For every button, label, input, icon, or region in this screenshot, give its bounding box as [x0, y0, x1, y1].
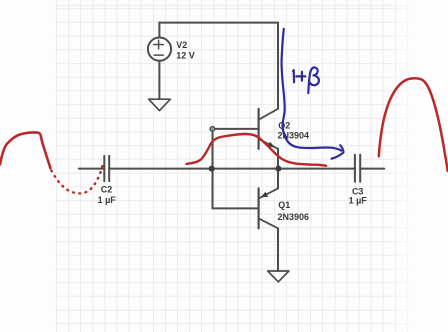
junction node on output wire at emitters	[275, 166, 281, 172]
svg-text:2N3906: 2N3906	[278, 212, 310, 222]
label 1 uF for C2	[98, 195, 117, 205]
label 2N3904	[278, 130, 310, 140]
wire input stub left of C2	[79, 168, 105, 170]
blue annotation curve with arrow	[282, 29, 344, 159]
wire V2 top lead	[158, 23, 160, 37]
capacitor C2	[104, 156, 109, 181]
ground under Q1	[268, 271, 289, 282]
svg-text:C2: C2	[101, 185, 113, 195]
capacitor C3	[355, 155, 360, 182]
red base waveform hump	[187, 134, 327, 166]
wire V2 bottom lead to ground	[158, 61, 160, 99]
svg-text:1 µF: 1 µF	[98, 195, 117, 205]
label Q1	[278, 200, 290, 210]
red input waveform solid hump	[0, 132, 50, 168]
wire top rail from V2 to Q2 collector	[159, 22, 278, 24]
red output waveform big hump	[379, 78, 448, 171]
transistor Q2 NPN symbol	[259, 109, 278, 149]
voltage source V2	[148, 38, 171, 61]
svg-text:1 µF: 1 µF	[349, 196, 368, 206]
wire Q1 emitter lead	[277, 169, 279, 189]
svg-text:12 V: 12 V	[176, 51, 195, 61]
junction node on input wire at base bus	[209, 166, 215, 172]
wire Q2 collector lead	[277, 23, 279, 109]
label 2N3906	[278, 212, 310, 222]
wire Q1 base lead	[213, 207, 259, 209]
label C3	[352, 186, 364, 196]
wire output stub right of C3	[360, 168, 384, 170]
blue handwritten label 1+beta	[293, 67, 319, 93]
label C2	[101, 185, 113, 195]
wire Q1 collector lead to ground	[277, 228, 279, 271]
transistor Q1 PNP symbol	[259, 188, 278, 228]
red input waveform dashed valley	[51, 162, 103, 194]
label 12 V	[176, 51, 195, 61]
label V2	[176, 40, 187, 50]
svg-text:V2: V2	[176, 40, 187, 50]
label Q2	[278, 121, 290, 131]
svg-text:Q2: Q2	[278, 121, 290, 131]
wire main horizontal net C2 to C3	[109, 168, 355, 170]
svg-text:2N3904: 2N3904	[278, 130, 310, 140]
label 1 uF for C3	[349, 196, 368, 206]
ground under V2	[149, 99, 171, 110]
wire Q2 base lead	[213, 128, 259, 130]
wire base bus vertical	[212, 129, 214, 209]
node terminal circle at base bus corner	[210, 127, 215, 132]
wire Q2 emitter lead	[277, 149, 279, 169]
svg-text:Q1: Q1	[278, 200, 290, 210]
